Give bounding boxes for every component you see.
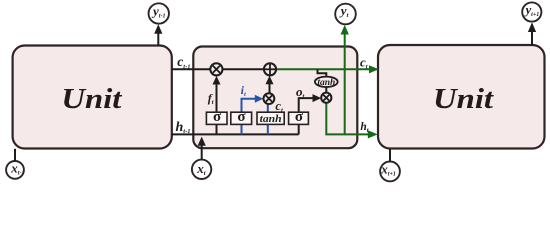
svg-text:Unit: Unit [61, 83, 122, 115]
svg-text:σ: σ [295, 109, 304, 125]
svg-text:Unit: Unit [433, 83, 494, 115]
svg-text:σ: σ [237, 109, 246, 125]
svg-text:σ: σ [213, 109, 222, 125]
svg-text:tanh: tanh [317, 78, 335, 88]
svg-text:tanh: tanh [260, 113, 282, 125]
